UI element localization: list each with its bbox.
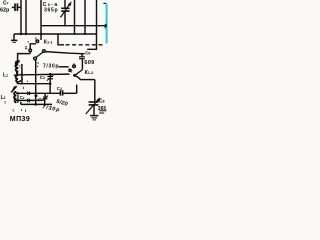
switch K1-1 corner wire to contact b [30, 44, 36, 49]
plates [89, 101, 99, 103]
bus upper y=25.7 [41, 25, 106, 27]
coil L1 core bar [21, 64, 23, 84]
bottom lead [93, 105, 95, 116]
wire y=100.4 [16, 99, 42, 101]
mech link dashed line y=44.8 [66, 44, 105, 46]
wire y=83.7 [17, 83, 51, 85]
svg-text:МП39: МП39 [10, 116, 30, 121]
coupling cap plates top wire [27, 92, 29, 96]
trimmer C5 lead top [44, 93, 46, 97]
capacitor C4 plates [59, 90, 61, 95]
C4 right lead up [76, 85, 78, 93]
coil L1 bottom lead [16, 82, 18, 84]
svg-text:C8: C8 [99, 99, 105, 105]
switch K1-1 tick 1 [35, 37, 37, 39]
svg-text:К1-1: К1-1 [44, 39, 53, 45]
junction dot C3 bottom [49, 82, 52, 85]
box right vertical to variable cap [94, 80, 96, 102]
svg-text:609: 609 [84, 60, 94, 66]
svg-text:C4: C4 [57, 86, 62, 91]
coil L1 loops lower [16, 75, 18, 82]
junction dots on main vertical [34, 94, 37, 97]
coil L2 arrow [11, 86, 17, 93]
capacitor C8 arrow [61, 4, 71, 18]
coil L1 bottom hook [18, 80, 21, 82]
svg-text:C2: C2 [20, 95, 25, 100]
trimmer C3 bottom lead [49, 79, 51, 84]
trimmer tick small [37, 62, 39, 64]
svg-text:К1-2: К1-2 [85, 70, 94, 76]
coil L2 loops [14, 92, 16, 103]
capacitor C7 leads [12, 6, 15, 8]
vertical from C3 dot down [49, 84, 51, 93]
bus upper right hook [104, 26, 106, 29]
coupling cap plates bottom wire [27, 99, 29, 103]
svg-text:C3: C3 [40, 75, 45, 80]
trimmer C3 plates [47, 76, 53, 78]
svg-text:C7: C7 [3, 0, 9, 6]
switch K1-1 contact circle a [36, 40, 39, 43]
wire vertical x=74.5 top [74, 0, 76, 34]
ground bar2 [13, 41, 16, 43]
switch K1-1 contact circle b [29, 49, 32, 52]
svg-text:3: 3 [4, 100, 6, 104]
small dashes right of 365 [99, 110, 106, 112]
svg-text:2: 2 [71, 70, 73, 74]
mech link vertical x=58 [58, 34, 64, 45]
teal wire top hook [103, 2, 106, 4]
junction dot coil tap [21, 74, 24, 77]
teal wire dark segment at bus junction [105, 24, 107, 27]
wire y=93.3 right of C4 [63, 92, 77, 94]
switch K1-2 arm [76, 70, 83, 75]
svg-text:365: 365 [98, 106, 107, 112]
wire vertical x=85 top [84, 0, 86, 34]
svg-text:L1: L1 [3, 73, 8, 79]
trimmer C5 lead bottom [44, 99, 46, 105]
svg-text:2: 2 [19, 65, 21, 69]
capacitor C6 top lead [81, 54, 83, 57]
capacitor C6 plates [79, 56, 85, 58]
wire vertical x=41 top [40, 0, 42, 40]
trimmer C5 plates [43, 96, 47, 98]
coil L1 arrow blob [14, 60, 20, 66]
junction dots on buses [20, 33, 23, 36]
capacitor C8 bottom lead [64, 11, 66, 26]
bus lower y=34 [14, 33, 97, 35]
switch K1-2 contact circle 2 [69, 69, 71, 71]
trimmer C3 arrow [47, 75, 53, 81]
capacitor C8 plates [61, 7, 69, 9]
svg-text:C6: C6 [85, 50, 90, 55]
switch K1-1 contact b lead to coil wire [29, 52, 31, 54]
wire y=93.3 left [16, 92, 60, 94]
switch K1-1 arm [36, 52, 43, 57]
wire y=53.6 to coil L1 [18, 54, 31, 61]
box top wire y=79.6 [80, 79, 95, 81]
capacitor C6 bottom lead [81, 59, 83, 70]
capacitor C7 plates [14, 3, 16, 11]
stub up from wire3 [20, 102, 22, 105]
svg-text:C5: C5 [38, 97, 43, 102]
switch K1-2 arm pivot blob [73, 74, 76, 77]
coil L1 loops upper [16, 61, 19, 74]
coil L1 tap wire [14, 74, 70, 75]
arrow [86, 99, 99, 114]
ground stem left [13, 34, 15, 40]
ground bottom right [90, 115, 98, 117]
switch K1-1 arm pivot circle [34, 57, 37, 60]
switch K1-2 pivot curve to box [76, 76, 81, 79]
wire vertical x=96.5 top, bends left at y=49 [87, 0, 96, 49]
junction dot C3 top [49, 73, 52, 76]
main vertical x=35.7 [35, 60, 37, 106]
wire sloped from switch to C6 [45, 52, 84, 54]
tiny dot [28, 41, 29, 42]
capacitor C8 top lead [64, 0, 66, 8]
teal wire vertical [106, 3, 108, 43]
ground bar1 [11, 39, 17, 41]
wire vertical x=21 top [20, 0, 22, 34]
wire y=104.4 bottom [21, 103, 52, 105]
svg-text:7/30p: 7/30p [43, 64, 58, 70]
switch K1-1 arm contact circle c [43, 50, 46, 53]
svg-text:3: 3 [12, 108, 14, 112]
trimmer C3 top lead [49, 74, 51, 76]
tiny mark E [25, 46, 27, 48]
svg-text:365p: 365p [44, 7, 58, 13]
svg-text:7/30p: 7/30p [42, 104, 61, 113]
switch K1-2 contact circle 1 [73, 65, 76, 68]
tiny digits near coils [21, 79, 23, 81]
switch K1-2 tick above [73, 63, 75, 65]
coil L2 core bar [17, 92, 19, 103]
wire K1-2 feed y=66.8 [59, 66, 69, 68]
svg-text:62p: 62p [0, 8, 10, 14]
wire vertical x=26 top [25, 0, 27, 34]
trimmer C5 arrow [43, 96, 48, 101]
